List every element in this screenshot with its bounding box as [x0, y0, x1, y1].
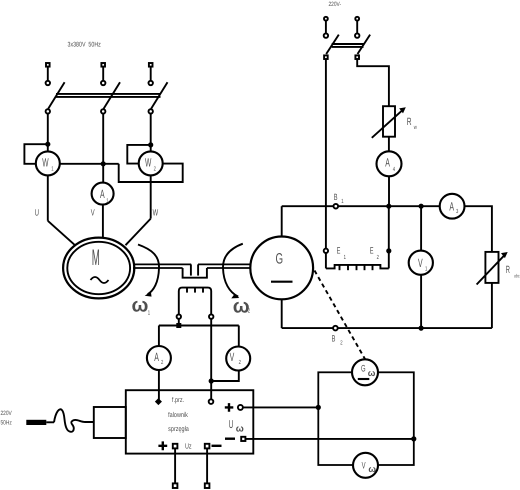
svg-text:ω: ω — [368, 368, 376, 378]
svg-text:R: R — [407, 116, 412, 128]
svg-text:G: G — [361, 364, 366, 375]
svg-text:ω: ω — [233, 296, 250, 318]
svg-text:M: M — [92, 245, 100, 270]
svg-text:R: R — [506, 264, 510, 276]
svg-text:E: E — [370, 246, 374, 256]
svg-text:Uz: Uz — [185, 442, 192, 451]
svg-text:W: W — [153, 207, 159, 217]
svg-text:V: V — [418, 256, 423, 270]
svg-text:U: U — [229, 419, 234, 431]
svg-text:E: E — [337, 246, 341, 256]
svg-text:V: V — [91, 207, 95, 217]
svg-text:V: V — [230, 350, 235, 364]
svg-text:W: W — [42, 156, 49, 170]
svg-text:A: A — [385, 155, 390, 169]
svg-text:falownik: falownik — [168, 411, 188, 419]
svg-text:ω: ω — [368, 464, 376, 474]
svg-text:220V-: 220V- — [329, 1, 342, 8]
svg-text:A: A — [449, 199, 454, 213]
svg-text:ω: ω — [236, 424, 244, 435]
svg-text:G: G — [276, 250, 284, 267]
svg-text:50Hz: 50Hz — [1, 420, 12, 427]
svg-text:A: A — [100, 187, 105, 201]
svg-text:ω: ω — [132, 295, 149, 317]
svg-text:B: B — [334, 192, 338, 202]
svg-text:f.prz.: f.prz. — [172, 396, 184, 404]
svg-text:w: w — [413, 125, 417, 131]
svg-text:obc: obc — [514, 274, 520, 280]
svg-text:V: V — [362, 460, 366, 471]
svg-text:220V: 220V — [1, 410, 13, 417]
svg-text:3x380V 50Hz: 3x380V 50Hz — [68, 42, 102, 49]
svg-text:sprzęgła: sprzęgła — [168, 425, 189, 433]
svg-text:W: W — [145, 155, 152, 169]
svg-text:U: U — [35, 207, 39, 217]
svg-text:A: A — [154, 350, 159, 364]
svg-text:B: B — [332, 333, 336, 343]
